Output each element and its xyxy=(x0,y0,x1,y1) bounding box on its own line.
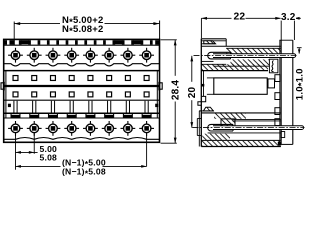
left mounting ear xyxy=(1,83,4,89)
front view housing outline xyxy=(4,39,160,142)
right latch square xyxy=(155,104,158,107)
dimension 28.4 line xyxy=(174,40,176,76)
dimension 5.00/5.08 line xyxy=(16,151,38,153)
screw terminals row 2 xyxy=(8,121,154,136)
rib line xyxy=(4,70,160,72)
top step xyxy=(225,39,227,47)
hatched band under plug section xyxy=(201,64,268,70)
svg-text:1.0*1.0: 1.0*1.0 xyxy=(295,68,308,100)
left wall inner line xyxy=(203,71,205,97)
inner window xyxy=(214,78,267,94)
snap hook xyxy=(269,59,278,73)
pin 1 redraw over plate xyxy=(213,54,296,58)
bottom latch wedge xyxy=(203,107,213,111)
dimension 1.0*1.0 xyxy=(297,47,302,49)
clip box right of window xyxy=(268,79,275,88)
dimension N*5.00+2 extension line right xyxy=(159,21,161,40)
screw terminals row 1 xyxy=(8,48,154,63)
svg-text:22: 22 xyxy=(234,11,246,22)
inner side wall lines xyxy=(5,71,7,118)
pin 2 (solder pin, long) xyxy=(213,126,304,130)
svg-text:5.08: 5.08 xyxy=(40,153,58,163)
svg-text:20: 20 xyxy=(187,86,198,98)
side view left edge xyxy=(200,39,202,147)
pin 1 centerline xyxy=(194,55,297,57)
extension line below screw 1 xyxy=(15,133,17,170)
dimension 22 line xyxy=(201,17,231,19)
hatched strip below line xyxy=(214,113,246,119)
dimension 3.2 right arrow tail xyxy=(294,17,300,19)
extension line below screw 2 xyxy=(33,133,35,154)
right wall clip teeth xyxy=(275,75,280,126)
bottom plug top line xyxy=(199,110,214,112)
pcb plate xyxy=(292,40,294,144)
hatched wall below pin 1 xyxy=(231,59,270,66)
left wall notch xyxy=(202,84,205,87)
hatched wall above pin 1 xyxy=(226,48,281,53)
lower notch band dashes xyxy=(11,114,152,118)
dimension N*5.00+2 extension line left xyxy=(13,22,15,46)
pin 2 redraw over plate xyxy=(213,126,304,130)
pin 1 (solder pin through plate) xyxy=(213,54,296,58)
dimension (N-1)*5.00 line xyxy=(16,165,61,167)
middle divider line xyxy=(4,85,160,87)
side view top edge double line xyxy=(201,38,226,40)
right mounting ear xyxy=(160,83,163,89)
dimension 28.4 extensions xyxy=(161,39,177,41)
pin 1 barrel xyxy=(208,52,231,59)
left wall step xyxy=(198,96,206,105)
top latch wedge xyxy=(204,41,216,44)
svg-text:(N−1)*5.08: (N−1)*5.08 xyxy=(62,167,106,179)
dimension 20 line xyxy=(191,56,193,82)
extension line below screw 8 xyxy=(146,135,148,166)
bottom wall xyxy=(201,139,281,141)
dimension 3.2 extensions xyxy=(280,20,282,40)
wire entry squares row 2 xyxy=(13,92,149,97)
top notch band bottom line xyxy=(4,44,160,46)
contact block xyxy=(221,119,235,127)
socket top line xyxy=(201,45,281,47)
scalloped rib line above bottom edge xyxy=(4,138,160,140)
body top rib line xyxy=(201,70,268,72)
svg-text:N*5.08+2: N*5.08+2 xyxy=(62,24,104,37)
dimension 22 extension xyxy=(200,18,202,38)
lower band top line xyxy=(4,99,160,101)
right wall lines xyxy=(279,40,281,146)
left latch square xyxy=(8,104,11,107)
hatched wall below pin 2 xyxy=(202,134,230,140)
dimension text 3.2 xyxy=(281,11,296,20)
lower notch band top line xyxy=(4,112,160,114)
pin 2 barrel xyxy=(208,124,233,131)
scalloped rib line below top screws xyxy=(4,64,160,66)
partition wall slots (middle band) xyxy=(14,101,148,113)
wire entry squares row 1 xyxy=(13,76,149,81)
svg-text:3.2: 3.2 xyxy=(281,12,296,23)
top notch band separators xyxy=(4,40,160,44)
pin 2 centerline xyxy=(192,127,304,129)
plate inner detail xyxy=(281,132,285,138)
svg-text:28.4: 28.4 xyxy=(170,80,181,101)
lower notch band bottom line xyxy=(4,117,160,119)
dimension N*5.00+2 line xyxy=(14,23,60,25)
